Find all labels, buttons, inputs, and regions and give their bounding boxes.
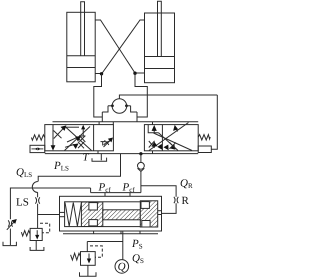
wire R to block (162, 203, 177, 213)
svg-text:LS: LS (16, 197, 29, 209)
node right junction (133, 72, 136, 75)
svg-text:QLS: QLS (16, 167, 32, 180)
wire right cylinder bottom port (135, 72, 145, 74)
wire Q_LS drop to block (90, 188, 92, 193)
arrow up at top (82, 129, 84, 137)
wire yoke right (135, 73, 147, 117)
pilot dashed PS (90, 246, 102, 257)
wire yoke left (94, 74, 103, 117)
spool right land (140, 201, 157, 227)
block outer (60, 196, 162, 231)
node left junction (100, 72, 103, 75)
tank relief LS (35, 241, 37, 251)
wire left cylinder bottom port (95, 73, 101, 75)
pump circle (115, 260, 129, 274)
spring relief PS (71, 253, 81, 260)
wire bracket right (127, 105, 131, 107)
wire Pcf gallery line (91, 192, 141, 194)
tank relief PS (87, 265, 89, 276)
wire LS hop over Q_LS (32, 182, 38, 193)
arrow right with orifice (65, 145, 74, 148)
wire yoke right foot (136, 112, 138, 122)
spring block (65, 203, 81, 227)
arrow left with orifice (169, 144, 175, 150)
cylinder right piston (145, 56, 175, 58)
spring left valve (31, 135, 44, 140)
tank T between valves (100, 154, 102, 161)
arrow down P-A (52, 125, 54, 146)
check valve P_cf (139, 152, 142, 155)
wire diag long C (159, 133, 179, 151)
spool stem (103, 210, 141, 220)
block port stub right (158, 210, 162, 212)
wire LS to block (38, 214, 60, 216)
notch (148, 125, 158, 133)
relief valve PS (86, 242, 88, 252)
wire right cylinder top port (102, 20, 145, 74)
wire top rail (53, 121, 199, 123)
sub-box right: arrow up-right with orifice (104, 140, 112, 148)
cylinder left rod (81, 2, 85, 56)
block bottom plate (63, 233, 158, 235)
wire diag long B (154, 133, 193, 151)
valve left box (45, 125, 114, 151)
valve left divider (93, 125, 95, 151)
arrow up (153, 130, 155, 133)
tank Q_LS (3, 242, 16, 246)
cylinder right rod (158, 1, 162, 56)
wire yoke left foot (101, 112, 103, 122)
spring right valve (198, 135, 210, 140)
orifice variable with arrow (8, 220, 12, 226)
wire left cylinder top port (95, 20, 135, 73)
arrow diag up-right with orifice (54, 128, 64, 138)
wire pedestal right (131, 106, 137, 112)
wire top stub (65, 126, 79, 128)
pilot box left (30, 145, 45, 152)
svg-text:QS: QS (132, 253, 144, 266)
wire bottom rail (45, 153, 198, 155)
wire diag long A (149, 123, 189, 151)
arrow down-right mid (157, 144, 162, 150)
node bracket left dot (111, 104, 114, 107)
arrow down-left cluster (152, 142, 158, 147)
node bracket right dot (125, 104, 128, 107)
wire Q_LS margin (10, 188, 90, 219)
valve right box (144, 125, 198, 151)
pilot dashed LS (40, 223, 50, 233)
arrow right-up with orifice (67, 137, 78, 142)
orifice R (174, 197, 178, 203)
pilot box right (198, 146, 211, 153)
joint circle (112, 99, 127, 114)
svg-text:PLS: PLS (53, 160, 69, 173)
svg-text:PS: PS (131, 238, 143, 251)
wire diag long A (65, 127, 91, 151)
spool left land (81, 202, 102, 227)
wire diag long B (65, 127, 91, 151)
svg-text:Pcf: Pcf (98, 182, 112, 195)
valve right internals (148, 123, 192, 151)
wire bracket left (108, 105, 112, 107)
wire port ticks (98, 122, 100, 125)
arrow up 2 (176, 128, 178, 132)
valve right divider (161, 125, 163, 151)
wire right margin (211, 95, 217, 149)
orifice LS (35, 197, 39, 203)
svg-text:QR: QR (180, 177, 193, 190)
block chamber (65, 202, 155, 227)
block port stub left (60, 211, 65, 213)
arrow right mid2 (164, 145, 169, 151)
svg-text:Pcf: Pcf (122, 182, 136, 195)
valve left internals (51, 125, 113, 151)
spring relief LS (21, 231, 30, 236)
cylinder left piston (67, 55, 95, 57)
wire LS vertical (37, 193, 39, 198)
svg-text:T: T (83, 152, 90, 164)
wire P_LS line (38, 154, 120, 182)
wire Q_R branch (141, 186, 176, 197)
svg-text:R: R (182, 195, 190, 207)
svg-text:Q: Q (118, 261, 126, 273)
cylinder left body (67, 12, 95, 82)
wire P_S line (122, 231, 124, 260)
wire pedestal left (102, 106, 108, 112)
relief valve LS (30, 228, 42, 240)
wire circle top stub (119, 95, 217, 99)
cylinder right body (145, 13, 175, 83)
